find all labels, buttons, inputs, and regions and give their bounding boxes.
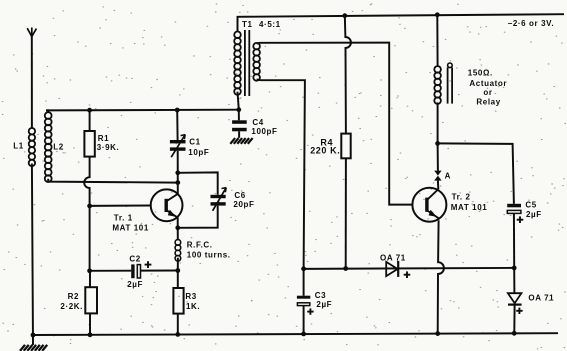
svg-text:2·2K.: 2·2K.	[60, 302, 83, 311]
svg-text:R.F.C.: R.F.C.	[187, 240, 213, 249]
svg-text:or: or	[483, 88, 492, 97]
svg-text:3·9K.: 3·9K.	[97, 143, 120, 152]
svg-text:10pF: 10pF	[188, 148, 209, 157]
svg-text:MAT 101: MAT 101	[451, 203, 488, 212]
svg-text:2µF: 2µF	[526, 210, 542, 219]
svg-text:OA 71: OA 71	[380, 253, 406, 262]
svg-text:Tr. 2: Tr. 2	[452, 193, 471, 202]
svg-text:A: A	[445, 172, 451, 181]
svg-text:−2·6 or 3V.: −2·6 or 3V.	[508, 19, 555, 28]
svg-text:Tr. 1: Tr. 1	[114, 214, 133, 223]
svg-text:L1: L1	[13, 142, 24, 151]
svg-text:L2: L2	[53, 143, 64, 152]
svg-text:100 turns.: 100 turns.	[187, 250, 231, 259]
svg-text:4·5:1: 4·5:1	[259, 20, 281, 29]
svg-text:2µF: 2µF	[316, 300, 332, 309]
svg-text:C1: C1	[189, 138, 200, 147]
svg-text:R2: R2	[68, 292, 79, 301]
svg-text:T1: T1	[242, 20, 253, 29]
svg-text:C3: C3	[315, 291, 326, 300]
svg-text:Actuator: Actuator	[469, 79, 507, 88]
svg-text:C5: C5	[525, 201, 536, 210]
svg-text:C2: C2	[129, 255, 140, 264]
svg-text:OA 71: OA 71	[528, 293, 554, 302]
svg-text:2µF: 2µF	[127, 280, 143, 289]
svg-text:1K.: 1K.	[186, 302, 200, 311]
svg-text:100pF: 100pF	[251, 127, 277, 136]
svg-text:220 K.: 220 K.	[310, 145, 340, 155]
svg-text:Relay: Relay	[476, 98, 500, 107]
svg-text:MAT 101: MAT 101	[112, 224, 149, 233]
svg-text:20pF: 20pF	[233, 200, 254, 209]
svg-text:150Ω.: 150Ω.	[468, 69, 493, 78]
svg-text:R3: R3	[185, 292, 196, 301]
svg-text:R1: R1	[98, 134, 109, 143]
